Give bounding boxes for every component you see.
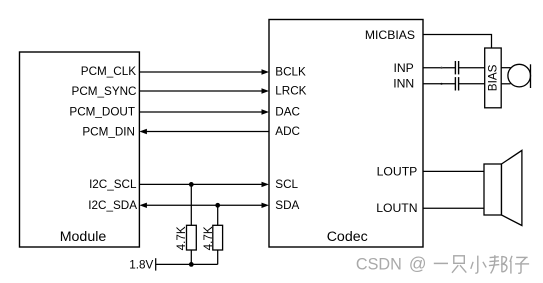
wire LOUTP [423,170,484,172]
svg-text:I2C_SDA: I2C_SDA [88,199,137,212]
svg-text:DAC: DAC [275,106,300,119]
svg-text:LOUTN: LOUTN [376,201,417,215]
wire R2 to 1.8V rail [217,250,219,264]
wire LOUTN [423,207,484,209]
wire SDA to R2 [217,205,219,225]
svg-text:4.7K: 4.7K [202,226,215,250]
capacitor C1 [455,61,458,74]
svg-text:LOUTP: LOUTP [377,164,418,178]
wire SCL [139,182,269,187]
svg-text:@: @ [409,254,427,274]
wire BCLK [139,69,269,74]
svg-text:I2C_SCL: I2C_SCL [89,178,137,191]
svg-text:SDA: SDA [275,199,299,212]
svg-text:PCM_SYNC: PCM_SYNC [72,85,137,98]
wire BIAS to mic + [501,67,510,69]
svg-text:CSDN: CSDN [356,256,402,274]
svg-text:MICBIAS: MICBIAS [365,28,415,42]
wire C1 to BIAS [459,67,485,69]
svg-text:INN: INN [393,77,414,91]
wire INP [423,67,455,69]
capacitor C2 [455,77,458,90]
microphone MK1 [508,64,531,88]
resistor R2 4.7K [213,225,223,250]
svg-text:PCM_DIN: PCM_DIN [82,125,135,138]
svg-text:BIAS: BIAS [486,64,499,91]
svg-text:ADC: ADC [275,125,300,138]
module block U1 [20,52,140,247]
svg-text:INP: INP [393,61,413,75]
svg-text:SCL: SCL [275,178,298,191]
wire MICBIAS [423,35,492,49]
junction SCL pull-up [189,182,194,187]
svg-text:Codec: Codec [327,229,368,245]
bias network block [485,48,502,108]
wire BIAS to mic - [501,83,510,85]
wire INN [423,83,455,85]
svg-text:PCM_DOUT: PCM_DOUT [69,105,135,118]
svg-text:1.8V: 1.8V [129,258,153,271]
wire ADC [139,129,269,134]
svg-text:LRCK: LRCK [275,85,306,98]
wire SCL to R1 [190,184,192,225]
watermark glyph zhi [452,256,466,273]
junction SDA pull-up [215,203,220,208]
wire 1.8V rail [156,263,218,265]
1.8V supply terminal [155,258,157,270]
svg-text:BCLK: BCLK [275,66,306,79]
watermark glyph yi [434,262,448,264]
junction INP [440,67,442,69]
watermark glyph xiao [471,256,486,274]
wire C2 to BIAS [459,83,485,85]
wire SDA [139,203,269,208]
resistor R1 4.7K [187,225,197,250]
wire DAC [139,109,269,114]
svg-text:4.7K: 4.7K [175,226,188,250]
wire LRCK [139,88,269,93]
codec block U2 [269,20,423,248]
watermark glyph bang [489,255,507,273]
svg-text:PCM_CLK: PCM_CLK [81,65,136,78]
svg-text:Module: Module [60,229,107,245]
junction INN [440,83,442,85]
watermark glyph zai [510,256,529,274]
speaker LS1 [484,150,522,225]
junction 1.8V rail [189,262,194,267]
wire R1 to 1.8V rail [190,250,192,264]
